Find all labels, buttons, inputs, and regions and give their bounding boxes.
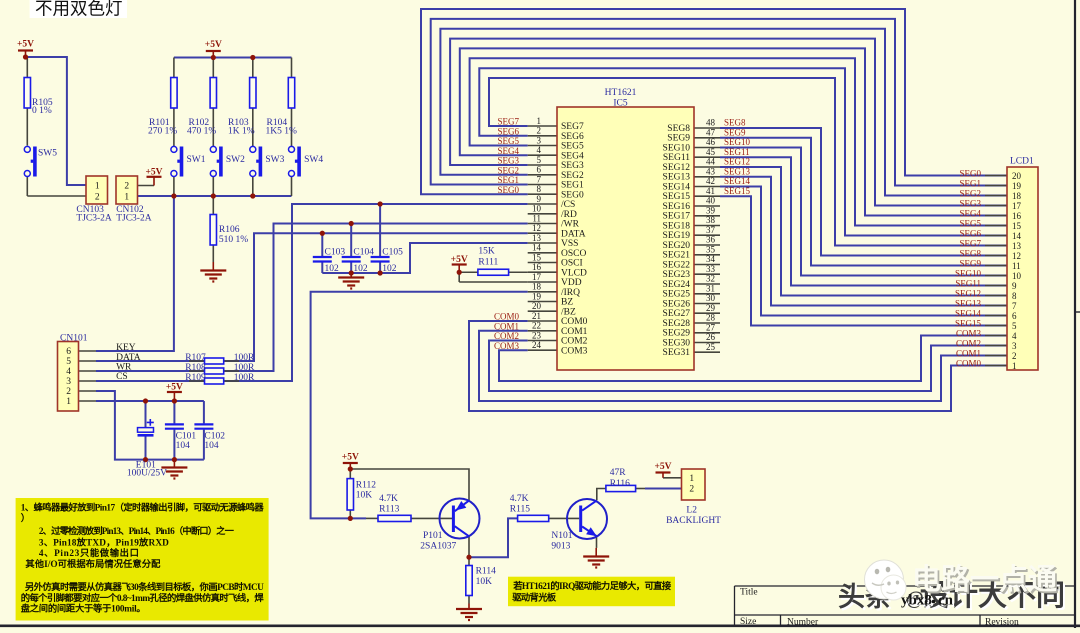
svg-text:SEG30: SEG30 xyxy=(663,338,691,348)
svg-text:SEG13: SEG13 xyxy=(724,166,751,176)
svg-text:10: 10 xyxy=(532,204,542,214)
svg-text:18: 18 xyxy=(532,282,542,292)
svg-text:SEG11: SEG11 xyxy=(955,278,981,288)
svg-text:COM1: COM1 xyxy=(494,321,519,331)
svg-text:SEG16: SEG16 xyxy=(663,202,691,212)
svg-text:TJC3-2A: TJC3-2A xyxy=(76,214,112,224)
svg-text:14: 14 xyxy=(1012,231,1022,241)
svg-text:44: 44 xyxy=(706,157,716,167)
svg-text:16: 16 xyxy=(1012,211,1022,221)
svg-text:SEG13: SEG13 xyxy=(663,173,691,183)
svg-text:100U/25V: 100U/25V xyxy=(127,469,167,479)
svg-text:SEG3: SEG3 xyxy=(959,198,981,208)
svg-text:SEG14: SEG14 xyxy=(663,182,691,192)
svg-text:2: 2 xyxy=(124,182,129,192)
svg-text:SEG9: SEG9 xyxy=(724,127,746,137)
svg-text:SEG18: SEG18 xyxy=(663,221,691,231)
svg-text:20: 20 xyxy=(532,301,542,311)
svg-text:37: 37 xyxy=(706,225,716,235)
svg-text:SW3: SW3 xyxy=(265,155,284,165)
svg-text:+5V: +5V xyxy=(451,255,468,265)
svg-text:7: 7 xyxy=(537,174,542,184)
svg-text:5: 5 xyxy=(537,155,542,165)
svg-text:104: 104 xyxy=(176,441,191,451)
svg-text:COM0: COM0 xyxy=(561,317,588,327)
svg-text:104: 104 xyxy=(204,441,219,451)
svg-text:COM3: COM3 xyxy=(494,341,520,351)
svg-text:R106: R106 xyxy=(219,225,240,235)
svg-text:/BZ: /BZ xyxy=(561,307,576,317)
svg-text:BACKLIGHT: BACKLIGHT xyxy=(666,516,721,526)
svg-text:COM2: COM2 xyxy=(561,337,588,347)
svg-text:2: 2 xyxy=(689,485,694,495)
svg-text:SEG23: SEG23 xyxy=(663,270,691,280)
svg-text:102: 102 xyxy=(382,264,397,274)
svg-text:15: 15 xyxy=(1012,221,1022,231)
svg-text:22: 22 xyxy=(532,321,541,331)
svg-text:SEG10: SEG10 xyxy=(663,143,691,153)
svg-text:CN101: CN101 xyxy=(60,334,88,344)
svg-text:SEG5: SEG5 xyxy=(561,142,584,152)
svg-text:SEG4: SEG4 xyxy=(561,151,584,161)
svg-text:4: 4 xyxy=(66,367,71,377)
svg-text:20: 20 xyxy=(1012,171,1022,181)
svg-text:R113: R113 xyxy=(379,505,399,515)
svg-text:SEG13: SEG13 xyxy=(955,298,982,308)
svg-text:4.7K: 4.7K xyxy=(510,494,529,504)
svg-text:cn: cn xyxy=(938,593,954,609)
svg-text:OSCO: OSCO xyxy=(561,249,586,259)
svg-text:31: 31 xyxy=(706,283,715,293)
svg-text:+5V: +5V xyxy=(17,40,34,50)
svg-text:若HT1621的IRQ驱动能力足够大，可直接: 若HT1621的IRQ驱动能力足够大，可直接 xyxy=(512,580,672,592)
svg-text:18: 18 xyxy=(1012,191,1022,201)
svg-text:1、蜂鸣器最好放到Pin17（定时器输出引脚，可驱动无源蜂鸣: 1、蜂鸣器最好放到Pin17（定时器输出引脚，可驱动无源蜂鸣器 xyxy=(21,502,265,514)
svg-text:SEG27: SEG27 xyxy=(663,309,691,319)
svg-text:2、过零检测放到Pin13、Pin14、Pin16（中断口）: 2、过零检测放到Pin13、Pin14、Pin16（中断口）之一 xyxy=(39,525,235,537)
svg-text:DATA: DATA xyxy=(561,229,586,239)
svg-text:CS: CS xyxy=(116,372,128,382)
svg-text:12: 12 xyxy=(532,223,541,233)
svg-text:SEG0: SEG0 xyxy=(959,168,981,178)
svg-text:盘之间的间距大于等于100mil。: 盘之间的间距大于等于100mil。 xyxy=(21,603,146,615)
svg-text:DATA: DATA xyxy=(116,353,141,363)
svg-text:1: 1 xyxy=(66,397,71,407)
svg-text:15: 15 xyxy=(532,252,542,262)
svg-text:47R: 47R xyxy=(610,468,627,478)
svg-text:WR: WR xyxy=(116,363,132,373)
svg-text:2: 2 xyxy=(1012,351,1017,361)
svg-text:SEG0: SEG0 xyxy=(497,185,519,195)
svg-text:SEG25: SEG25 xyxy=(663,290,691,300)
svg-text:SEG12: SEG12 xyxy=(955,288,981,298)
svg-text:102: 102 xyxy=(325,264,340,274)
svg-text:1K5 1%: 1K5 1% xyxy=(266,127,297,137)
svg-text:SEG14: SEG14 xyxy=(955,308,982,318)
svg-text:R111: R111 xyxy=(478,258,498,268)
svg-text:47: 47 xyxy=(706,127,716,137)
svg-text:21: 21 xyxy=(532,311,541,321)
svg-text:SW4: SW4 xyxy=(304,155,323,165)
svg-text:6: 6 xyxy=(66,347,71,357)
svg-text:2: 2 xyxy=(95,193,100,203)
svg-text:7: 7 xyxy=(1012,301,1017,311)
svg-text:SEG1: SEG1 xyxy=(561,181,584,191)
svg-text:R107: R107 xyxy=(185,353,206,363)
svg-text:13: 13 xyxy=(1012,241,1022,251)
svg-text:17: 17 xyxy=(1012,201,1022,211)
svg-text:SEG15: SEG15 xyxy=(724,186,751,196)
svg-text:102: 102 xyxy=(353,264,368,274)
svg-text:39: 39 xyxy=(706,205,716,215)
svg-text:SEG31: SEG31 xyxy=(663,348,691,358)
svg-text:12: 12 xyxy=(1012,251,1021,261)
svg-text:19: 19 xyxy=(532,291,542,301)
svg-text:Revision: Revision xyxy=(985,618,1019,628)
svg-text:0 1%: 0 1% xyxy=(32,106,52,116)
svg-text:SEG2: SEG2 xyxy=(959,188,981,198)
svg-text:100R: 100R xyxy=(234,363,255,373)
svg-text:SEG1: SEG1 xyxy=(497,175,519,185)
svg-text:3、Pin18放TXD，Pin19放RXD: 3、Pin18放TXD，Pin19放RXD xyxy=(39,536,169,548)
svg-text:SEG22: SEG22 xyxy=(663,260,691,270)
svg-text:另外仿真时需要从仿真器飞30条线到目标板，你画PCB时MCU: 另外仿真时需要从仿真器飞30条线到目标板，你画PCB时MCU xyxy=(25,581,264,593)
svg-text:+5V: +5V xyxy=(342,453,359,463)
svg-text:SEG6: SEG6 xyxy=(497,126,519,136)
svg-text:40: 40 xyxy=(706,196,716,206)
svg-text:3: 3 xyxy=(66,377,71,387)
svg-text:8: 8 xyxy=(1012,291,1017,301)
svg-text:SEG21: SEG21 xyxy=(663,251,691,261)
svg-text:SEG20: SEG20 xyxy=(663,241,691,251)
svg-text:14: 14 xyxy=(532,243,542,253)
svg-text:13: 13 xyxy=(532,233,542,243)
svg-text:3: 3 xyxy=(1012,341,1017,351)
svg-text:38: 38 xyxy=(706,215,716,225)
svg-text:+5V: +5V xyxy=(166,383,183,393)
svg-text:COM0: COM0 xyxy=(956,358,982,368)
svg-text:COM0: COM0 xyxy=(494,312,520,322)
svg-text:2: 2 xyxy=(537,126,542,136)
svg-text:45: 45 xyxy=(706,147,716,157)
svg-text:N101: N101 xyxy=(551,531,572,541)
svg-text:Number: Number xyxy=(787,618,819,628)
svg-text:SEG10: SEG10 xyxy=(724,137,751,147)
svg-text:4.7K: 4.7K xyxy=(379,494,398,504)
svg-text:Title: Title xyxy=(740,588,758,598)
svg-text:8: 8 xyxy=(537,184,542,194)
svg-text:VSS: VSS xyxy=(561,239,578,249)
svg-text:SEG14: SEG14 xyxy=(724,176,751,186)
svg-text:24: 24 xyxy=(532,340,542,350)
svg-text:的每个引脚都要对应一个0.8~1mm孔径的焊盘供仿真时飞线，: 的每个引脚都要对应一个0.8~1mm孔径的焊盘供仿真时飞线，焊 xyxy=(21,592,265,604)
svg-text:34: 34 xyxy=(706,254,716,264)
svg-text:2: 2 xyxy=(66,387,71,397)
svg-text:SEG0: SEG0 xyxy=(561,190,584,200)
svg-text:9: 9 xyxy=(1012,281,1017,291)
svg-text:R109: R109 xyxy=(185,373,206,383)
svg-text:SEG9: SEG9 xyxy=(959,258,981,268)
svg-text:46: 46 xyxy=(706,137,716,147)
svg-text:4、Pin23只能做输出口: 4、Pin23只能做输出口 xyxy=(39,547,139,559)
svg-text:4: 4 xyxy=(537,145,542,155)
svg-text:11: 11 xyxy=(1012,261,1021,271)
svg-text:SEG2: SEG2 xyxy=(497,165,519,175)
svg-text:电路一点通: 电路一点通 xyxy=(912,563,1057,596)
svg-text:1: 1 xyxy=(95,182,100,192)
svg-text:SEG4: SEG4 xyxy=(497,146,519,156)
svg-text:27: 27 xyxy=(706,322,716,332)
svg-text:2SA1037: 2SA1037 xyxy=(420,542,456,552)
svg-text:17: 17 xyxy=(532,272,542,282)
svg-text:COM3: COM3 xyxy=(561,346,588,356)
svg-text:1: 1 xyxy=(689,474,694,484)
svg-text:R108: R108 xyxy=(185,363,206,373)
svg-text:SEG5: SEG5 xyxy=(959,218,981,228)
svg-text:11: 11 xyxy=(532,213,541,223)
svg-text:1: 1 xyxy=(124,193,129,203)
svg-text:SEG12: SEG12 xyxy=(663,163,691,173)
svg-text:42: 42 xyxy=(706,176,715,186)
svg-text:SEG7: SEG7 xyxy=(561,122,584,132)
svg-text:R114: R114 xyxy=(476,567,496,577)
svg-text:COM3: COM3 xyxy=(956,328,982,338)
svg-text:Size: Size xyxy=(740,617,756,627)
svg-text:SEG3: SEG3 xyxy=(497,156,519,166)
svg-text:43: 43 xyxy=(706,166,716,176)
svg-text:100R: 100R xyxy=(234,373,255,383)
svg-text:3: 3 xyxy=(537,135,542,145)
svg-text:SEG1: SEG1 xyxy=(959,178,981,188)
svg-text:SEG24: SEG24 xyxy=(663,280,691,290)
svg-text:36: 36 xyxy=(706,235,716,245)
svg-text:100R: 100R xyxy=(234,353,255,363)
svg-text:SEG11: SEG11 xyxy=(663,153,690,163)
svg-text:/CS: /CS xyxy=(561,200,575,210)
svg-text:SEG15: SEG15 xyxy=(955,318,982,328)
svg-text:5: 5 xyxy=(66,357,71,367)
svg-text:470 1%: 470 1% xyxy=(187,127,216,137)
svg-text:29: 29 xyxy=(706,303,716,313)
svg-text:SEG17: SEG17 xyxy=(663,212,691,222)
svg-text:15K: 15K xyxy=(478,247,495,257)
svg-text:HT1621: HT1621 xyxy=(605,88,637,98)
svg-text:SEG7: SEG7 xyxy=(959,238,981,248)
svg-text:SEG26: SEG26 xyxy=(663,299,691,309)
svg-text:SEG11: SEG11 xyxy=(724,147,750,157)
svg-text:4: 4 xyxy=(1012,331,1017,341)
svg-text:1: 1 xyxy=(1012,361,1017,371)
svg-text:23: 23 xyxy=(532,330,542,340)
svg-text:）: ） xyxy=(21,512,30,524)
svg-text:28: 28 xyxy=(706,313,716,323)
svg-text:BZ: BZ xyxy=(561,298,573,308)
svg-text:其他I/O可根据布局情况任意分配: 其他I/O可根据布局情况任意分配 xyxy=(25,558,161,570)
svg-text:SEG28: SEG28 xyxy=(663,319,691,329)
svg-text:SEG4: SEG4 xyxy=(959,208,981,218)
svg-text:+5V: +5V xyxy=(205,40,222,50)
svg-text:19: 19 xyxy=(1012,181,1022,191)
svg-text:SEG10: SEG10 xyxy=(955,268,982,278)
svg-text:510 1%: 510 1% xyxy=(219,235,248,245)
svg-text:VDD: VDD xyxy=(561,278,582,288)
svg-text:COM1: COM1 xyxy=(956,348,981,358)
svg-text:41: 41 xyxy=(706,186,715,196)
svg-text:COM2: COM2 xyxy=(956,338,981,348)
svg-text:SEG12: SEG12 xyxy=(724,157,750,167)
svg-text:L2: L2 xyxy=(686,506,697,516)
svg-text:C105: C105 xyxy=(382,248,403,258)
svg-text:IC5: IC5 xyxy=(613,99,628,109)
svg-text:SEG6: SEG6 xyxy=(561,132,584,142)
svg-text:P101: P101 xyxy=(423,531,443,541)
svg-text:COM1: COM1 xyxy=(561,327,588,337)
svg-text:SEG29: SEG29 xyxy=(663,329,691,339)
svg-text:R116: R116 xyxy=(610,479,630,489)
svg-text:不用双色灯: 不用双色灯 xyxy=(35,0,123,19)
svg-text:10: 10 xyxy=(1012,271,1022,281)
svg-text:9: 9 xyxy=(537,194,542,204)
svg-text:48: 48 xyxy=(706,118,716,128)
svg-text:SW5: SW5 xyxy=(38,149,57,159)
svg-text:9013: 9013 xyxy=(551,542,570,552)
svg-text:TJC3-2A: TJC3-2A xyxy=(116,214,152,224)
svg-text:OSCI: OSCI xyxy=(561,259,583,269)
svg-text:+5V: +5V xyxy=(654,462,671,472)
svg-text:26: 26 xyxy=(706,332,716,342)
svg-text:SW2: SW2 xyxy=(226,155,245,165)
svg-text:SEG2: SEG2 xyxy=(561,171,584,181)
svg-text:SEG15: SEG15 xyxy=(663,192,691,202)
svg-text:16: 16 xyxy=(532,262,542,272)
svg-text:驱动背光板: 驱动背光板 xyxy=(512,592,557,604)
svg-text:SEG9: SEG9 xyxy=(667,134,690,144)
svg-text:10K: 10K xyxy=(476,577,493,587)
svg-text:SEG8: SEG8 xyxy=(667,124,690,134)
svg-text:R112: R112 xyxy=(356,481,376,491)
svg-text:270 1%: 270 1% xyxy=(148,127,177,137)
svg-text:SEG8: SEG8 xyxy=(724,118,746,128)
svg-text:SW1: SW1 xyxy=(187,155,206,165)
svg-text:KEY: KEY xyxy=(116,343,136,353)
svg-text:LCD1: LCD1 xyxy=(1010,157,1034,167)
svg-text:6: 6 xyxy=(1012,311,1017,321)
svg-text:32: 32 xyxy=(706,274,715,284)
svg-text:SEG3: SEG3 xyxy=(561,161,584,171)
svg-text:SEG7: SEG7 xyxy=(497,117,519,127)
svg-text:+5V: +5V xyxy=(145,168,162,178)
svg-text:35: 35 xyxy=(706,244,716,254)
svg-text:1: 1 xyxy=(537,116,542,126)
svg-text:30: 30 xyxy=(706,293,716,303)
svg-text:10K: 10K xyxy=(356,491,373,501)
svg-text:5: 5 xyxy=(1012,321,1017,331)
svg-text:33: 33 xyxy=(706,264,716,274)
svg-text:6: 6 xyxy=(537,165,542,175)
svg-text:/IRQ: /IRQ xyxy=(561,288,580,298)
svg-text:1K 1%: 1K 1% xyxy=(228,127,255,137)
svg-text:/RD: /RD xyxy=(561,210,577,220)
svg-text:R115: R115 xyxy=(510,505,530,515)
svg-text:VLCD: VLCD xyxy=(561,268,587,278)
svg-text:COM2: COM2 xyxy=(494,331,519,341)
svg-text:SEG8: SEG8 xyxy=(959,248,981,258)
svg-text:SEG19: SEG19 xyxy=(663,231,691,241)
svg-text:C104: C104 xyxy=(353,248,374,258)
svg-text:25: 25 xyxy=(706,342,716,352)
svg-text:C103: C103 xyxy=(325,248,346,258)
svg-text:ybx8: ybx8 xyxy=(901,593,932,609)
svg-text:/WR: /WR xyxy=(561,220,580,230)
svg-text:SEG6: SEG6 xyxy=(959,228,981,238)
svg-text:SEG5: SEG5 xyxy=(497,136,519,146)
